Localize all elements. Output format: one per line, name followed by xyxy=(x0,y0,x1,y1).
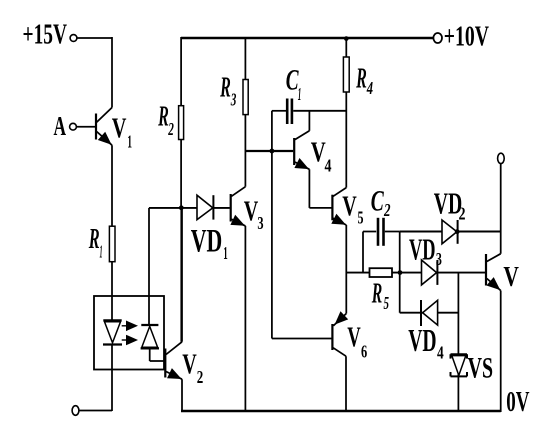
svg-text:V: V xyxy=(244,195,259,227)
svg-text:1: 1 xyxy=(100,241,103,261)
svg-text:VS: VS xyxy=(468,352,493,385)
svg-text:V: V xyxy=(347,321,361,353)
svg-text:4: 4 xyxy=(437,342,444,362)
svg-text:0V: 0V xyxy=(506,386,529,418)
svg-text:2: 2 xyxy=(383,200,390,220)
svg-text:+10V: +10V xyxy=(444,21,489,53)
svg-text:1: 1 xyxy=(298,84,302,104)
svg-text:C: C xyxy=(371,185,385,218)
svg-text:R: R xyxy=(220,72,231,104)
svg-text:V: V xyxy=(503,261,519,293)
svg-text:R: R xyxy=(158,101,169,133)
svg-text:R: R xyxy=(371,278,382,310)
svg-text:A: A xyxy=(54,111,67,141)
svg-text:2: 2 xyxy=(168,119,174,139)
svg-text:3: 3 xyxy=(257,213,263,233)
svg-text:V: V xyxy=(182,349,197,381)
svg-text:5: 5 xyxy=(358,208,364,228)
svg-text:5: 5 xyxy=(384,293,390,313)
svg-text:VD: VD xyxy=(191,224,223,260)
svg-text:2: 2 xyxy=(197,367,204,387)
svg-text:2: 2 xyxy=(459,204,466,224)
svg-text:V: V xyxy=(342,190,357,222)
svg-text:3: 3 xyxy=(436,249,442,269)
svg-text:R: R xyxy=(88,223,99,255)
svg-text:+15V: +15V xyxy=(23,19,68,51)
svg-text:1: 1 xyxy=(223,243,228,263)
svg-text:R: R xyxy=(356,63,367,95)
svg-text:6: 6 xyxy=(361,341,367,361)
svg-text:4: 4 xyxy=(325,156,332,176)
svg-text:V: V xyxy=(112,113,127,145)
svg-text:VD: VD xyxy=(408,322,436,358)
svg-text:1: 1 xyxy=(127,131,132,151)
svg-text:VD: VD xyxy=(409,232,436,267)
svg-text:3: 3 xyxy=(230,89,236,109)
svg-text:4: 4 xyxy=(366,78,373,98)
